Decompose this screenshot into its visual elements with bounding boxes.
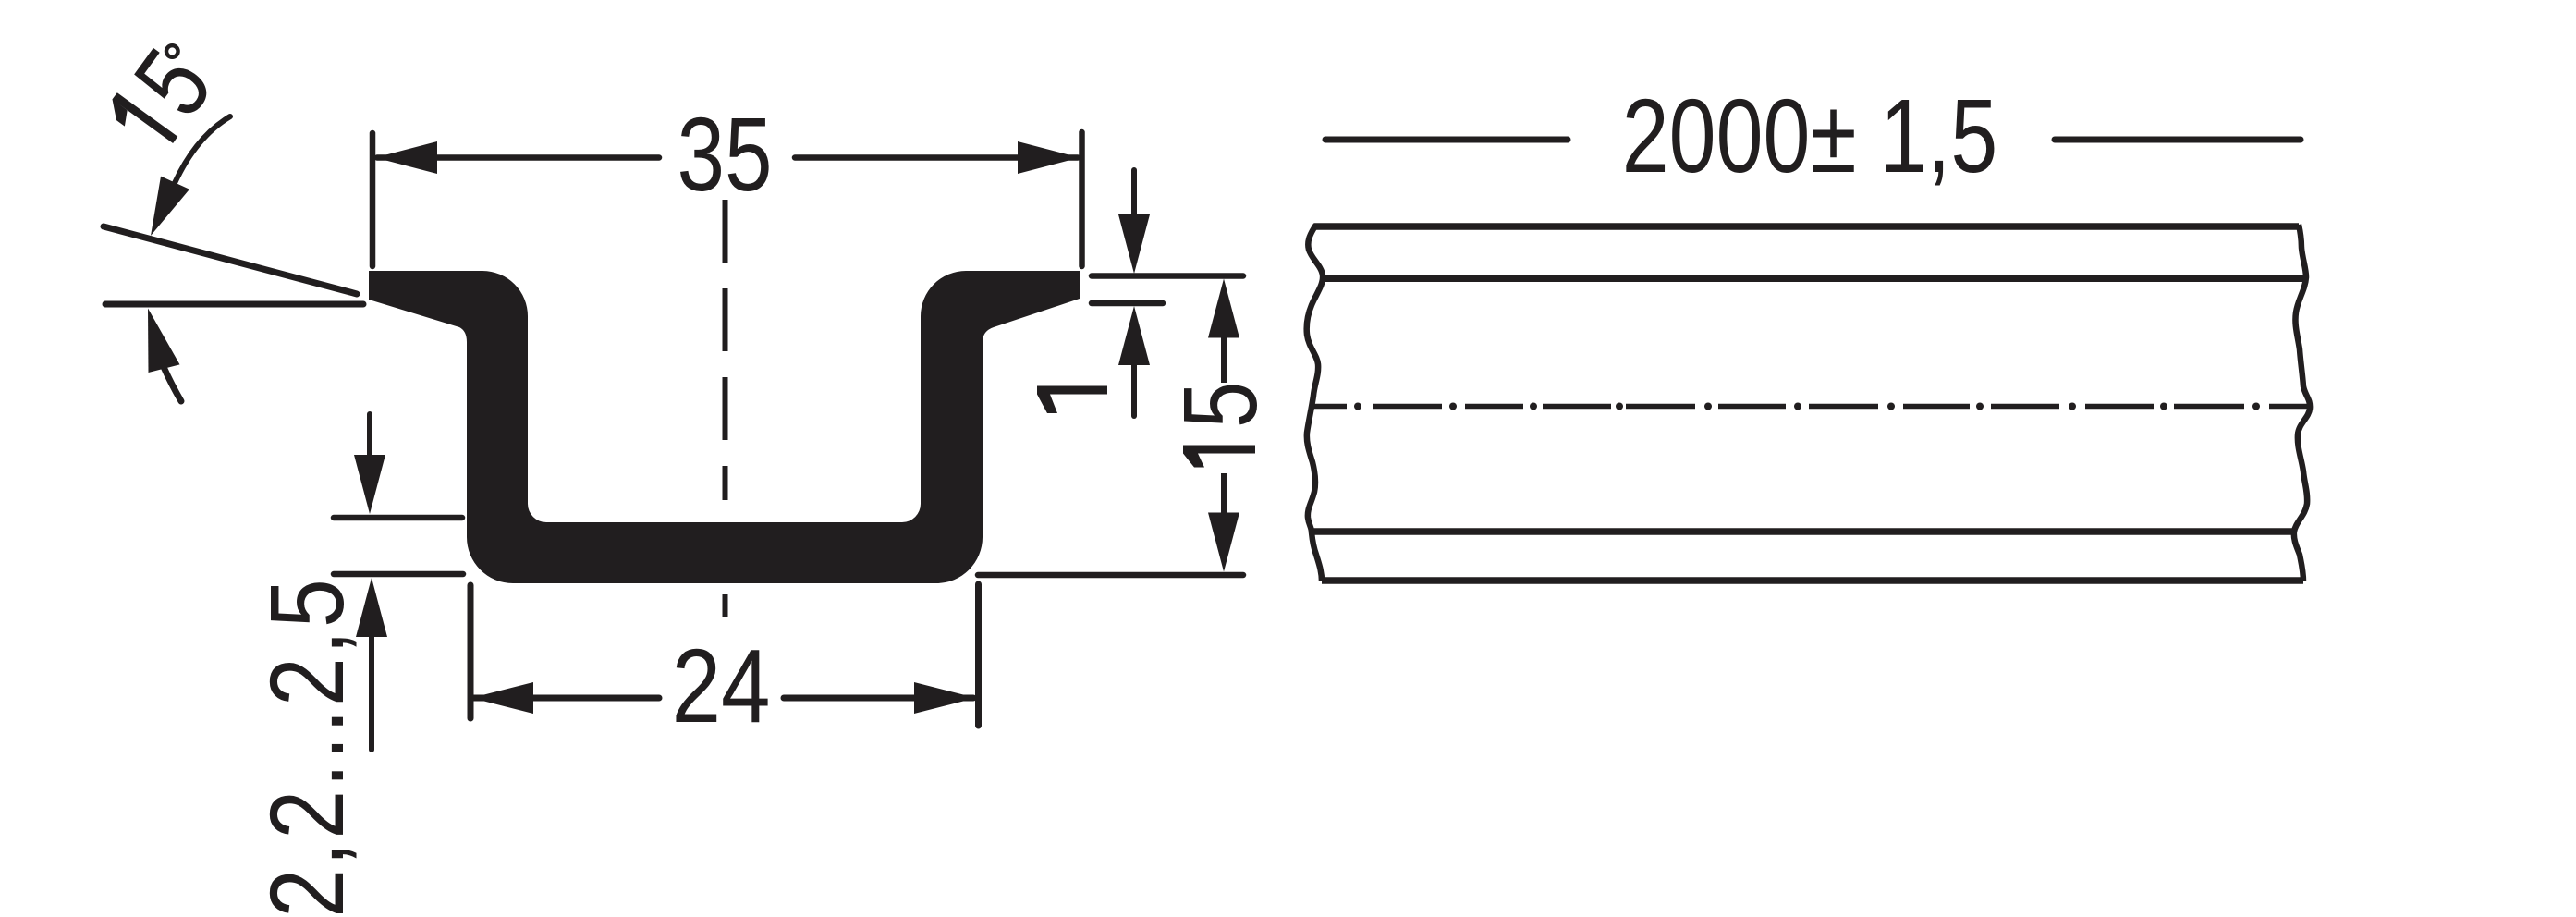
svg-text:2,2...2,5: 2,2...2,5 [250, 576, 366, 917]
angle 15 deg: slanted reference line [104, 226, 357, 294]
dimension 2,2...2,5: upper arrow (pointing down) [367, 414, 372, 458]
side view: bottom edge [1322, 577, 2303, 584]
side view: length dimension line left part [1325, 137, 1568, 143]
dimension 1: upper arrow (pointing down) [1131, 170, 1137, 218]
dimension 35: extension line left [370, 133, 376, 266]
dimension 1: extension line top [1092, 273, 1243, 279]
dimension 1: lower arrow (pointing up) [1118, 306, 1150, 365]
dimension 15: upper arrow (pointing up) [1208, 279, 1239, 338]
dimension 24: extension line right [975, 584, 982, 726]
side view: lower groove line [1312, 528, 2293, 535]
angle 15 deg: upper leader arc with arrowhead [175, 116, 230, 183]
svg-text:35: 35 [677, 95, 772, 213]
dimension 24: dimension line [473, 695, 659, 702]
dimension 2,2...2,5: upper reference line [334, 515, 462, 521]
dimension 24: extension line left [468, 585, 474, 718]
dimension 35: arrowhead left [375, 141, 437, 174]
angle 15 deg: value text (rotated) [113, 92, 178, 143]
dimension 1: extension line bottom [1092, 300, 1163, 307]
dimension 2,2...2,5: lower arrow (pointing up) [356, 578, 387, 637]
dimension 15: lower arrow (pointing down) [1221, 473, 1227, 513]
side view: top edge [1314, 223, 2299, 230]
dimension 2,2...2,5: lower reference line [334, 571, 463, 578]
side view: upper groove line [1324, 275, 2306, 282]
dimension 35: arrowhead right [1018, 141, 1080, 174]
side view: centre line (dash-dot) [1313, 404, 2311, 410]
svg-text:24: 24 [672, 629, 771, 745]
side view: length dimension line right part [2055, 137, 2301, 143]
dimension 15: value text (rotated, digit 1 as path + digit 5 as text) [1183, 446, 1255, 468]
hat-profile cross-section (filled) [369, 271, 1080, 583]
side view: right broken edge (wavy) [2294, 225, 2310, 581]
svg-text:5: 5 [1161, 382, 1278, 428]
dimension 1: value text (rotated digit drawn as path) [1037, 386, 1107, 414]
side view: left broken edge (wavy) [1307, 225, 1323, 581]
dimension 24: arrowhead left [471, 682, 533, 714]
angle 15 deg: lower leader arc with arrowhead [148, 309, 180, 373]
angle 15 deg: horizontal reference line [105, 301, 363, 308]
centre line of cross-section (dashed) [723, 200, 728, 617]
dimension 15: extension line bottom [978, 572, 1243, 579]
dimension 35: extension line right [1079, 132, 1085, 266]
dimension 35: dimension line [377, 154, 659, 161]
angle 15 deg: degree ring [166, 45, 178, 57]
dimension 24: arrowhead right [914, 682, 976, 714]
svg-text:2000± 1,5: 2000± 1,5 [1622, 78, 1997, 194]
